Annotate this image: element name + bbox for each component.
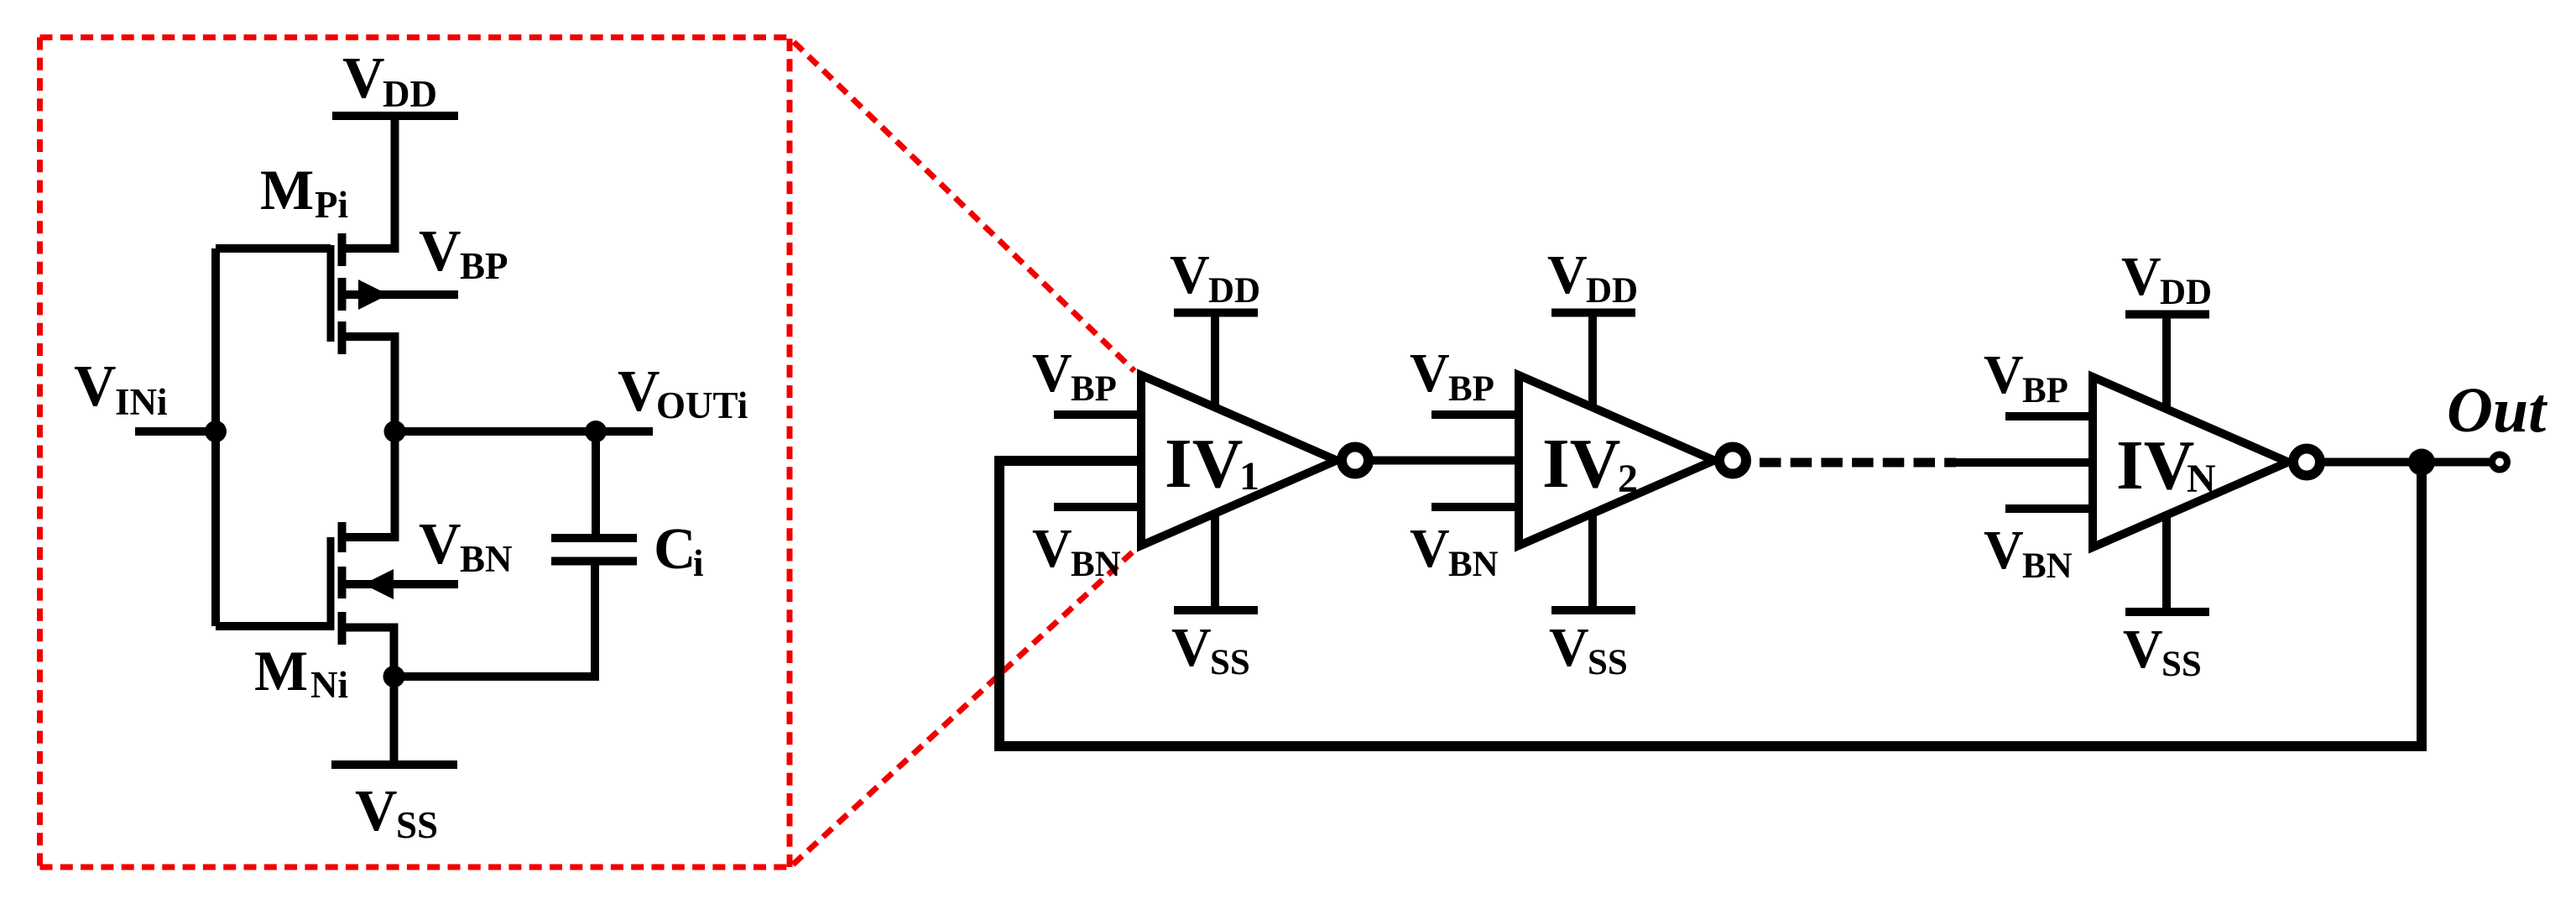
node output junction [384, 421, 406, 442]
IV1 VBN label [1032, 518, 1121, 584]
IVN VSS rail [2125, 608, 2209, 616]
svg-text:V: V [1170, 244, 1210, 306]
svg-text:V: V [1171, 617, 1212, 678]
wire M_Ni source down [342, 628, 394, 677]
IV1 VBP stub [1054, 410, 1141, 419]
IV1 VSS rail [1174, 606, 1258, 614]
wire dashed IV2 output toward IVN [1760, 458, 1956, 468]
svg-text:SS: SS [1588, 643, 1628, 682]
IVN VDD rail [2125, 311, 2209, 319]
svg-text:V: V [355, 779, 398, 844]
svg-text:V: V [618, 359, 660, 424]
IV2 VDD lead [1588, 313, 1597, 410]
IVN VBN stub [2005, 504, 2093, 513]
svg-text:DD: DD [1208, 271, 1260, 311]
svg-text:SS: SS [1210, 643, 1250, 682]
red dashed zoom box [40, 38, 790, 868]
svg-text:SS: SS [2161, 645, 2202, 684]
VSS label (left cell) [355, 779, 438, 846]
IV1 VDD label [1170, 244, 1260, 311]
wire V_INi stub [135, 427, 216, 436]
transistor M_Ni [331, 522, 342, 645]
wire IVN output to Out node [2321, 458, 2492, 467]
M_Ni bulk lead with arrow to V_BN [342, 580, 459, 588]
svg-text:DD: DD [383, 73, 437, 115]
node Out junction [2408, 449, 2435, 476]
IV2 VDD rail [1551, 309, 1635, 317]
node capacitor junction [585, 421, 607, 442]
node input junction [205, 421, 227, 442]
IVN VSS lead [2162, 512, 2171, 612]
svg-text:BN: BN [460, 538, 513, 580]
transistor M_Pi [331, 233, 342, 354]
svg-text:V: V [1032, 518, 1072, 579]
svg-text:BP: BP [1071, 369, 1117, 409]
V_BP label (left cell) [419, 219, 508, 287]
IV2 label [1542, 425, 1638, 503]
svg-text:BN: BN [2022, 546, 2073, 586]
svg-text:1: 1 [1239, 454, 1259, 499]
IVN output bubble [2293, 449, 2320, 476]
V_INi label [74, 354, 168, 423]
svg-text:SS: SS [396, 804, 438, 846]
C_i label [654, 517, 704, 584]
IVN VSS label [2123, 619, 2202, 684]
svg-text:V: V [2123, 619, 2163, 680]
svg-text:V: V [1984, 344, 2024, 405]
svg-text:i: i [693, 542, 704, 584]
svg-text:BN: BN [1071, 545, 1121, 584]
wire input vertical [211, 248, 220, 626]
IV2 VBN label [1410, 518, 1499, 584]
wire feedback loop [999, 461, 2422, 746]
IVN VBN label [1984, 520, 2073, 586]
IV2 VBP stub [1431, 410, 1519, 419]
svg-text:C: C [654, 517, 696, 582]
IV2 VDD label [1547, 244, 1638, 311]
IV2 VBP label [1410, 342, 1494, 409]
svg-text:V: V [1984, 520, 2024, 581]
IVN label [2116, 426, 2216, 504]
wire VDD to M_Pi drain [342, 116, 395, 248]
V_OUTi label [618, 359, 748, 426]
node source junction [383, 666, 405, 687]
IV2 VSS rail [1551, 606, 1635, 614]
M_Ni label [254, 639, 348, 706]
svg-text:IV: IV [1165, 425, 1243, 503]
IV2 VSS lead [1588, 510, 1597, 610]
IV1 VDD rail [1174, 309, 1258, 317]
inverter IV1 [1032, 244, 1369, 682]
IV1 triangle [1141, 375, 1337, 546]
zoom guide dashed line upper [794, 42, 1134, 371]
IV1 VDD lead [1211, 313, 1219, 410]
svg-text:V: V [1547, 244, 1588, 306]
svg-text:M: M [254, 639, 308, 703]
IV1 VBN stub [1054, 503, 1141, 511]
IV2 VSS label [1549, 617, 1628, 682]
svg-text:V: V [2121, 246, 2161, 307]
svg-text:BP: BP [2022, 371, 2068, 410]
svg-text:OUTi: OUTi [656, 384, 748, 426]
wire M_Ni gate lead [216, 622, 331, 630]
svg-text:2: 2 [1618, 457, 1638, 501]
svg-text:V: V [342, 46, 385, 111]
zoom guide dashed line lower [793, 547, 1138, 865]
svg-text:Pi: Pi [315, 184, 348, 226]
IV2 triangle [1519, 375, 1714, 546]
IV2 VBN stub [1431, 503, 1519, 511]
IV1 label [1165, 425, 1259, 503]
svg-text:V: V [1032, 342, 1072, 404]
svg-text:DD: DD [2160, 273, 2212, 312]
wire source node to VSS [390, 677, 399, 765]
IVN VBP label [1984, 344, 2068, 410]
inverter IV2 [1410, 244, 1746, 682]
svg-text:V: V [74, 354, 117, 419]
IV1 VSS label [1171, 617, 1250, 682]
wire output to V_OUTi [395, 427, 654, 436]
wire M_Pi gate lead [216, 244, 331, 253]
inverter IVN [1984, 246, 2320, 684]
svg-text:INi: INi [115, 381, 168, 423]
VDD rail (left cell) [332, 112, 458, 120]
IVN triangle [2093, 377, 2288, 547]
wire capacitor top lead [592, 431, 600, 538]
IVN VDD lead [2162, 315, 2171, 412]
svg-text:BP: BP [460, 245, 508, 287]
svg-text:BP: BP [1448, 369, 1494, 409]
IVN VDD label [2121, 246, 2212, 312]
wire IVN input [1948, 458, 2093, 467]
wire source node to capacitor bottom [394, 562, 596, 677]
V_BN label (left cell) [419, 512, 513, 580]
svg-text:BN: BN [1448, 545, 1499, 584]
svg-text:Ni: Ni [310, 664, 348, 706]
VSS rail (left cell) [331, 760, 457, 769]
svg-text:V: V [419, 512, 461, 577]
wire M_Pi source to output node [342, 337, 395, 537]
svg-text:Out: Out [2447, 375, 2548, 446]
svg-text:V: V [1410, 342, 1450, 404]
wire IV1 output to IV2 input [1369, 457, 1519, 465]
VDD label (left cell) [342, 46, 437, 115]
svg-text:V: V [1410, 518, 1450, 579]
svg-text:V: V [419, 219, 461, 284]
M_Pi label [260, 158, 348, 226]
IV1 output bubble [1342, 447, 1369, 474]
Out terminal open circle [2492, 455, 2507, 470]
IV1 VBP label [1032, 342, 1117, 409]
svg-text:M: M [260, 158, 314, 222]
M_Pi bulk lead with arrow to V_BP [342, 290, 459, 299]
IV1 VSS lead [1211, 510, 1219, 610]
svg-text:DD: DD [1586, 271, 1638, 311]
IVN VBP stub [2005, 412, 2093, 421]
svg-text:IV: IV [1542, 425, 1620, 503]
svg-text:V: V [1549, 617, 1589, 678]
svg-text:N: N [2187, 457, 2216, 501]
Out label [2447, 375, 2548, 446]
capacitor C_i [551, 538, 637, 562]
svg-text:IV: IV [2116, 426, 2194, 504]
IV2 output bubble [1719, 447, 1746, 474]
